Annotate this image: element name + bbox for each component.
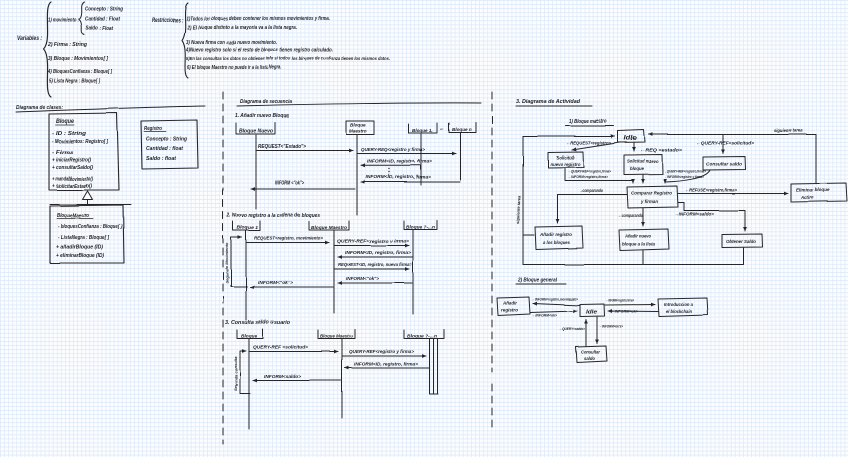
svg-text:Cantidad : float: Cantidad : float xyxy=(146,146,184,152)
node Idle xyxy=(618,130,645,143)
lifeline Bloque Nuevo xyxy=(255,135,257,209)
lifeline Maestro seq2 xyxy=(333,230,335,313)
svg-text:Bloque: Bloque xyxy=(350,123,366,128)
svg-text:2) Bloque general: 2) Bloque general xyxy=(517,278,557,284)
svg-text:Idle: Idle xyxy=(624,136,638,142)
svg-text:Consultar: Consultar xyxy=(581,350,600,355)
svg-text:INFORM<ID, registro, firma>: INFORM<ID, registro, firma> xyxy=(366,175,432,180)
svg-text:Diagrama de secuencia: Diagrama de secuencia xyxy=(240,99,292,105)
svg-text:3. Diagrama de Actividad: 3. Diagrama de Actividad xyxy=(516,99,581,105)
svg-text:Segundo Movimiento: Segundo Movimiento xyxy=(224,242,229,283)
svg-text:6) El bloque Maestro no puede: 6) El bloque Maestro no puede ir a la li… xyxy=(187,65,282,71)
generalization triangle xyxy=(83,191,93,200)
wire Comparar to Obtener Saldo xyxy=(678,203,745,232)
svg-text:Maestro: Maestro xyxy=(349,129,367,134)
svg-text:INFORM<"ok">: INFORM<"ok"> xyxy=(258,280,293,285)
svg-text:Saldo : float: Saldo : float xyxy=(146,156,177,162)
node Anadir registro (general) xyxy=(497,297,530,316)
svg-text:←QUERY-REF<registro,firma>: ←QUERY-REF<registro,firma> xyxy=(568,170,612,174)
svg-text:1)Todos los bloques deben cont: 1)Todos los bloques deben contener los m… xyxy=(186,16,330,22)
svg-text:Cantidad : Float: Cantidad : Float xyxy=(85,17,121,23)
svg-text:3) Nueva firma con cada nuevo: 3) Nueva firma con cada nuevo movimiento… xyxy=(186,40,277,46)
svg-text:3. Consulta saldo usuario: 3. Consulta saldo usuario xyxy=(225,320,291,326)
wire Anadir registro to Idle xyxy=(530,311,577,313)
svg-text:- Firma: - Firma xyxy=(52,150,73,156)
node Consultar saldo xyxy=(703,157,746,171)
svg-text:registro: registro xyxy=(501,308,518,313)
section divider dashed (sequence/activity) xyxy=(491,92,493,430)
big curly brace xyxy=(44,2,52,97)
wire Idle to Solicitud nuevo registro xyxy=(572,143,620,151)
svg-text:INFORM<ID, registro, firma>: INFORM<ID, registro, firma> xyxy=(345,250,411,255)
svg-text:Bloque n: Bloque n xyxy=(452,127,472,132)
svg-text:←QUERY<saldo>: ←QUERY<saldo> xyxy=(559,326,586,331)
svg-text:nuevo registro: nuevo registro xyxy=(550,162,580,167)
svg-text:4) BloquesConfianza : Bloque[: 4) BloquesConfianza : Bloque[ ] xyxy=(47,69,112,75)
svg-text:siguiente tarea: siguiente tarea xyxy=(774,128,804,133)
lifeline Bloque Maestro seq1 xyxy=(356,135,358,215)
lifeline Maestro seq3 xyxy=(341,339,343,418)
svg-text:←INFORM<registro,firma>: ←INFORM<registro,firma> xyxy=(568,175,609,179)
restricciones brace xyxy=(182,3,188,78)
loop bracket segundo movimiento xyxy=(231,238,247,287)
wire Introduccion to Idle xyxy=(608,310,658,313)
svg-text:Bloque 1: Bloque 1 xyxy=(237,225,258,231)
svg-text:2. Nuevo registro a la cadena: 2. Nuevo registro a la cadena de bloques xyxy=(226,213,320,219)
svg-text:QUERY-REF<registro y firma>: QUERY-REF<registro y firma> xyxy=(337,239,409,244)
node Anadir nuevo bloque a la lista xyxy=(619,229,669,251)
section divider dashed (classes/sequence) xyxy=(222,92,224,444)
svg-text:←REQ <estado>: ←REQ <estado> xyxy=(640,148,683,153)
lifeline Bloque n xyxy=(460,133,462,180)
lifeline box Bloque 1 (seq2) xyxy=(233,221,260,231)
svg-text:Solicitud nuevo: Solicitud nuevo xyxy=(627,159,658,164)
node Consultar saldo (general) xyxy=(576,346,607,363)
svg-text:- bloquesConfianza : Bloque[ ]: - bloquesConfianza : Bloque[ ] xyxy=(58,224,122,230)
class Registro box xyxy=(141,120,198,169)
svg-text:←INFORM<registro,firma>: ←INFORM<registro,firma> xyxy=(606,299,635,303)
svg-text:1. Añadir nuevo Bloque: 1. Añadir nuevo Bloque xyxy=(235,113,290,119)
lifeline B1 seq2 xyxy=(245,231,247,320)
top edge extension wire xyxy=(50,204,131,206)
svg-text:Saldo : Float: Saldo : Float xyxy=(86,26,114,32)
node Idle (general) xyxy=(580,304,605,317)
svg-text:←INFORM<ok's>: ←INFORM<ok's> xyxy=(599,324,623,329)
wire Idle to Solicitud nuevo bloque xyxy=(633,143,635,152)
svg-text:←QUERY-REF<solicitud>: ←QUERY-REF<solicitud> xyxy=(696,141,755,146)
svg-text:- ID : String: - ID : String xyxy=(52,131,87,137)
svg-text:←QUERY-REF<registro,firma>: ←QUERY-REF<registro,firma> xyxy=(664,170,707,174)
lifeline box Bloque n (seq3) xyxy=(404,330,444,339)
node Solicitud nuevo registro xyxy=(548,152,584,168)
svg-text:bloque a la lista: bloque a la lista xyxy=(622,242,656,247)
wire Solicitud nuevo bloque to Comparar xyxy=(642,175,644,184)
svg-text:QUERY-REF<registro y firma>: QUERY-REF<registro y firma> xyxy=(349,349,414,354)
svg-text:2) El bloque distinto a la may: 2) El bloque distinto a la mayoria va a … xyxy=(186,25,297,31)
lifeline box Bloque Maestro (seq2) xyxy=(309,221,349,230)
activation bars Bn seq3 xyxy=(430,339,439,394)
wire Anadir nuevo bloque bottom to loop xyxy=(642,251,644,265)
node Anadir registro a los bloques xyxy=(535,226,583,250)
svg-text:5)En las consultas los datos n: 5)En las consultas los datos no obtienen… xyxy=(186,56,390,62)
node Introduccion a el blockchain xyxy=(658,298,708,317)
svg-text:Idle: Idle xyxy=(586,310,597,316)
class Bloque box xyxy=(49,113,119,190)
lifeline Bn seq2 xyxy=(412,230,414,314)
wire Idle to Introduccion xyxy=(605,304,655,307)
wire left loop to Anadir registro xyxy=(523,234,534,236)
svg-text:Concepto : String: Concepto : String xyxy=(146,137,187,143)
lifeline box Bloque Nuevo xyxy=(236,123,275,135)
vertical dots xyxy=(388,168,389,175)
svg-text:+ mandaMovimiento(): + mandaMovimiento() xyxy=(52,177,93,183)
svg-text:Añadir: Añadir xyxy=(502,301,517,306)
svg-text:Bloque 1,: Bloque 1, xyxy=(412,128,433,133)
svg-text:Eliminar bloque: Eliminar bloque xyxy=(796,188,830,193)
svg-text:Concepto : String: Concepto : String xyxy=(85,7,123,13)
svg-text:2) Firma : String: 2) Firma : String xyxy=(47,42,88,48)
title underline wire xyxy=(16,106,205,112)
lifeline box Bloque n xyxy=(449,123,476,133)
svg-text:5) Lista Negra : Bloque[ ]: 5) Lista Negra : Bloque[ ] xyxy=(49,79,100,85)
svg-text:Añadir registro: Añadir registro xyxy=(539,232,572,237)
svg-text:←REFUSE<registro,firma>: ←REFUSE<registro,firma> xyxy=(685,188,737,193)
svg-text:Comparar Registro: Comparar Registro xyxy=(631,191,672,196)
svg-text:el blockchain: el blockchain xyxy=(666,309,692,314)
svg-text:y firman: y firman xyxy=(640,199,658,204)
svg-text:→INFORM<saldo>: →INFORM<saldo> xyxy=(674,212,715,217)
svg-text:Activo: Activo xyxy=(800,195,814,200)
lifeline box Bloque (seq3) xyxy=(237,330,263,339)
svg-text:Bloque Nuevo: Bloque Nuevo xyxy=(239,129,273,135)
svg-text:INFORM<ID, registro, firma>: INFORM<ID, registro, firma> xyxy=(354,362,418,367)
wire top right to Idle xyxy=(649,135,816,184)
svg-text:Obtener Saldo: Obtener Saldo xyxy=(726,239,756,244)
lifeline Bloque 1 xyxy=(420,134,422,185)
wire down into Consultar saldo xyxy=(722,135,724,154)
svg-text:Bloque: Bloque xyxy=(56,119,75,125)
wire Comparar to Anadir nuevo bloque xyxy=(642,208,644,226)
svg-text:QUERY-REF <solicitud>: QUERY-REF <solicitud> xyxy=(253,345,308,350)
title underline wire xyxy=(237,103,481,106)
svg-text:←INFORM<registro,movimiento>: ←INFORM<registro,movimiento> xyxy=(532,298,579,302)
svg-text:QUERY-REQ<registro y firma>: QUERY-REQ<registro y firma> xyxy=(361,147,426,152)
svg-text:Bloque ?-...n: Bloque ?-...n xyxy=(406,225,435,230)
svg-text:REQUEST<registro, movimiento>: REQUEST<registro, movimiento> xyxy=(254,236,323,241)
svg-text:Bloque ?-...n: Bloque ?-...n xyxy=(407,334,437,339)
bottom loop wire xyxy=(523,248,744,265)
node Eliminar bloque Activo xyxy=(791,183,847,202)
svg-text:Añadir nuevo: Añadir nuevo xyxy=(624,234,651,239)
loop bracket segunda consulta xyxy=(240,351,250,394)
svg-text:a los bloques: a los bloques xyxy=(543,240,570,245)
svg-text:→comparando: →comparando xyxy=(579,188,603,193)
svg-text:+ añadirBloque (ID): + añadirBloque (ID) xyxy=(56,245,103,251)
svg-text:Variables :: Variables : xyxy=(17,35,42,42)
svg-text:Bloque Maestro: Bloque Maestro xyxy=(320,334,353,340)
wire Consultar saldo to Idle xyxy=(585,320,587,347)
wire left-loop into Idle xyxy=(523,136,615,138)
wire Idle to Consultar saldo xyxy=(596,317,598,344)
class BloqueMaestro box xyxy=(50,205,124,263)
wire Comparar to Anadir registro xyxy=(558,195,628,224)
svg-text:←comparando: ←comparando xyxy=(618,213,643,218)
left loop vertical wire xyxy=(522,137,524,265)
svg-text:3) Bloque : Movimientos[ ]: 3) Bloque : Movimientos[ ] xyxy=(48,56,108,62)
svg-text:INFORM <"ok">: INFORM <"ok"> xyxy=(275,181,304,187)
wire Consultar saldo to Comparar xyxy=(665,170,710,183)
node Obtener Saldo xyxy=(722,234,763,248)
svg-text:Consultar saldo: Consultar saldo xyxy=(706,162,742,167)
generalization wire xyxy=(87,200,89,206)
svg-text:Restricciones :: Restricciones : xyxy=(152,17,183,24)
svg-text:- Movimientos: Registro[ ]: - Movimientos: Registro[ ] xyxy=(52,139,108,145)
svg-text:Bloque Maestro: Bloque Maestro xyxy=(311,225,347,231)
small curly brace xyxy=(79,2,85,35)
wire Comparar to Eliminar xyxy=(678,193,788,195)
svg-text:+ iniciarRegistro(): + iniciarRegistro() xyxy=(52,158,91,164)
svg-text:- ListaNegra : Bloque[ ]: - ListaNegra : Bloque[ ] xyxy=(58,235,109,241)
svg-text:INFORM<saldo>: INFORM<saldo> xyxy=(264,374,301,379)
svg-text:INFORM<ID, registro, firma>: INFORM<ID, registro, firma> xyxy=(367,159,433,164)
svg-text:+ eliminarBloque (ID): + eliminarBloque (ID) xyxy=(56,253,104,259)
svg-text:saldo: saldo xyxy=(584,356,595,361)
svg-text:1) Bloque maestro: 1) Bloque maestro xyxy=(569,119,607,125)
svg-text:+ solicitarEstado(): + solicitarEstado() xyxy=(52,184,92,190)
lifeline Bloque seq3 xyxy=(248,339,250,429)
node Solicitud nuevo bloque xyxy=(624,155,663,175)
svg-text:...: ... xyxy=(440,126,444,132)
lifeline box Bloque 1 xyxy=(408,123,437,133)
svg-text:Introduccion a: Introduccion a xyxy=(664,302,694,307)
svg-text:4)Nuevo registro solo si el re: 4)Nuevo registro solo si el resto de blo… xyxy=(185,48,333,54)
svg-text:1) movimiento :: 1) movimiento : xyxy=(48,18,79,24)
svg-text:REQUEST<"Estado">: REQUEST<"Estado"> xyxy=(258,144,306,150)
svg-text:bloque: bloque xyxy=(630,166,645,171)
wire Solicitud nuevo registro to Comparar xyxy=(565,168,633,184)
svg-text:INFORM<"ok">: INFORM<"ok"> xyxy=(346,276,379,281)
lifeline box Bloque Maestro (seq3) xyxy=(318,330,355,339)
node Comparar Registro y firma xyxy=(627,186,678,208)
lifeline box Bloque Maestro (seq1) xyxy=(346,121,374,135)
lifeline box Bloque n (seq2) xyxy=(404,221,437,230)
svg-text:Segunda consulta: Segunda consulta xyxy=(233,356,238,391)
svg-text:+ consultarSaldo(): + consultarSaldo() xyxy=(52,165,93,171)
wire Idle to Anadir registro xyxy=(533,304,580,306)
svg-text:←INFORM<ok>: ←INFORM<ok> xyxy=(532,313,558,318)
svg-text:REQUEST<ID, registro, nueva fi: REQUEST<ID, registro, nueva firma> xyxy=(338,262,412,267)
svg-text:Solicitud: Solicitud xyxy=(556,155,574,160)
